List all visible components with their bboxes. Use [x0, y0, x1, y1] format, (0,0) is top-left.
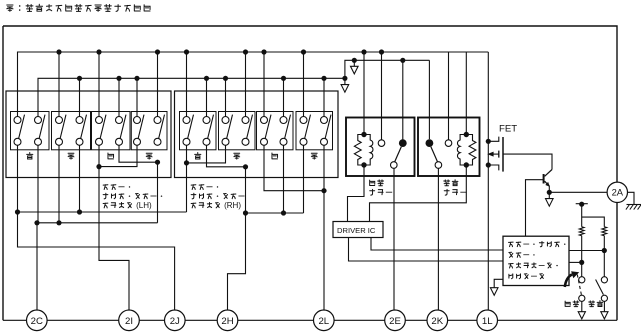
LH 右 switches: [134, 115, 165, 146]
RH 上 switches: [183, 115, 214, 146]
label: retract (kakunou): [565, 301, 579, 307]
node: bus B end junction with down arrow: [341, 76, 349, 92]
svg-text:2L: 2L: [318, 316, 329, 327]
terminal 2I: [119, 310, 140, 331]
terminal 2L: [314, 310, 335, 331]
retract relay NO contact (closed) and armature: [391, 58, 407, 169]
relay contact feed line: [345, 60, 430, 78]
RH 左 contact box: [257, 112, 294, 159]
LH up-right contact wire down to motor line B and to terminal 2C: [34, 145, 39, 310]
LH 上 switches: [14, 115, 45, 146]
chassis ground: [626, 205, 641, 210]
terminal 2H: [217, 310, 238, 331]
label: return relay: [444, 180, 467, 195]
LH 右 contact box: [131, 112, 167, 160]
RH down-right wire down through motor line A2 to terminal 2H: [228, 167, 249, 310]
terminal 2E: [385, 310, 406, 331]
RH 右 contact box: [296, 112, 333, 160]
return sense column with resistor: [602, 227, 607, 277]
RH 下 switches: [222, 115, 253, 146]
RH up-left wire down to motor line A: [186, 163, 188, 212]
svg-text:2K: 2K: [431, 316, 443, 327]
svg-text:FET: FET: [499, 124, 517, 135]
driver IC box: [333, 222, 383, 238]
label: retract relay: [370, 180, 393, 195]
svg-text:1L: 1L: [482, 316, 493, 327]
retract relay coil: [354, 49, 373, 167]
FET symbol: [486, 137, 503, 172]
svg-text:2J: 2J: [170, 316, 180, 327]
motor line A2 (RH): [246, 210, 304, 215]
svg-text:(LH): (LH): [136, 201, 152, 210]
transistor base wire to module: [526, 180, 544, 237]
RH up-right + down-right tie (jog H2): [207, 145, 249, 169]
retract relay (kakunou relay) box: [346, 118, 415, 177]
return position switch: [596, 277, 608, 319]
bus B junction dots and drop wires: [77, 76, 327, 117]
module ground stub with arrow: [490, 279, 503, 295]
wire: return coil to driver IC: [370, 165, 467, 222]
retract sense column with resistor: [579, 204, 584, 277]
emitter node with arrow and wire to 2A: [546, 190, 607, 207]
svg-text:2A: 2A: [612, 187, 624, 198]
label: power outer mirror switch (RH): [191, 185, 244, 210]
RH left-left + right-right tie (jog H3): [264, 145, 327, 193]
return relay NC contact: [445, 52, 452, 146]
retract position switch (dashed lever): [577, 275, 585, 319]
bottom rail wire: [3, 319, 617, 321]
FET output wire to transistor collector: [503, 154, 552, 169]
svg-text:2H: 2H: [221, 316, 233, 327]
svg-text:2E: 2E: [389, 316, 401, 327]
RH up-left + down-left tie (jog H1): [184, 145, 226, 165]
LH up-left contact wire to motor line A and line C to 2J: [15, 145, 175, 310]
LH left-left wire to terminal 2I: [99, 167, 129, 311]
RH right-right wire to terminal 2L: [323, 145, 325, 310]
terminal 2A: [607, 182, 627, 202]
terminal 2J: [165, 310, 186, 331]
power outer mirror switch (LH) outer box: [6, 91, 171, 178]
RH 左 switches: [261, 115, 291, 146]
power tap bar node: [576, 202, 588, 207]
RH switch outer box: [175, 91, 339, 178]
terminal 2C: [27, 310, 48, 331]
terminal 2K: [427, 310, 448, 331]
terminal 1L: [477, 310, 498, 331]
RH 下 contact box: [219, 112, 256, 160]
bus B (battery feed 2): [38, 78, 345, 116]
LH left-right + right-right contact tie (jog S2): [119, 145, 160, 164]
motor line A (LH): [18, 209, 187, 214]
branch to return column: [582, 217, 605, 227]
module output to retract switch column: [569, 260, 584, 265]
module output to return switch column: [569, 248, 607, 253]
svg-text:(RH): (RH): [224, 201, 241, 210]
bus A (battery feed 1): [18, 52, 489, 117]
svg-text:2I: 2I: [125, 316, 133, 327]
RH left-right contact wire: [283, 145, 285, 213]
LH 左 contact box: [92, 112, 131, 159]
label: return (fukki): [589, 301, 603, 307]
return relay armature wire to terminal 2K: [437, 168, 439, 310]
return relay coil: [457, 52, 476, 168]
LH down-right contact wire: [79, 145, 81, 212]
retract relay armature wire to terminal 2E: [393, 168, 395, 310]
wire: driver IC pin to module (upper): [371, 238, 503, 251]
return relay (fukki relay) box: [418, 118, 480, 177]
RH right-left contact wire: [303, 145, 305, 213]
bus A junction dots and drop wires: [56, 49, 306, 116]
RH 上 contact box: [180, 112, 217, 159]
node: relay feed tap with down arrow: [351, 58, 359, 74]
motor line B (LH): [37, 220, 158, 225]
wire: driver IC pin to module (lower): [349, 238, 504, 262]
actuation arrow (switching from return to retract): [565, 271, 579, 287]
LH left-left + right-left contact tie (jog S1): [96, 145, 137, 169]
power outer mirror control module box: [503, 236, 569, 285]
RH 右 switches: [300, 115, 331, 146]
LH 上 contact box: [11, 112, 50, 159]
wire 2A to chassis ground: [627, 192, 634, 204]
LH down-left contact wire: [58, 145, 60, 223]
wire: retract coil to driver IC: [348, 165, 365, 222]
return relay NO contact (open) and armature: [426, 60, 442, 168]
title: [7, 4, 150, 11]
label: power outer mirror switch (LH): [103, 185, 162, 210]
svg-text:DRIVER IC: DRIVER IC: [337, 226, 376, 235]
retract relay NC contact: [378, 49, 385, 146]
LH 下 switches: [56, 115, 87, 146]
LH 左 switches: [96, 115, 127, 146]
FET gate wire (bus A end down to terminal 1L): [487, 52, 489, 310]
LH right-right wire down to motor line B: [157, 162, 159, 223]
LH 下 contact box: [52, 112, 91, 160]
transistor Q1: [544, 170, 552, 193]
label: power outer mirror control module: [509, 241, 566, 278]
svg-text:2C: 2C: [31, 316, 43, 327]
label FET: [499, 124, 517, 135]
